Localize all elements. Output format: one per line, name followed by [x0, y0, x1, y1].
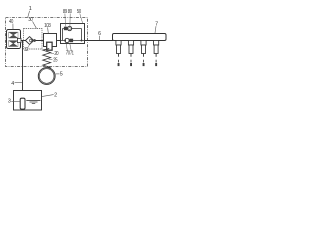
leader line for label 80 [69, 14, 71, 27]
relief valve ball 80 [67, 26, 71, 30]
leader line for label 6 [99, 36, 101, 40]
high pressure line 6 (to rail) [85, 40, 114, 42]
svg-text:2: 2 [54, 92, 57, 98]
low pressure line (pump 40 to pump housing) [21, 40, 44, 42]
junction dot at right riser [81, 40, 83, 42]
left riser wire [62, 29, 64, 41]
right riser wire [81, 29, 83, 41]
leader line for label 103 [47, 27, 50, 33]
leader line for label 1 [28, 11, 30, 18]
dashed box 30 (inlet valve unit) [24, 29, 43, 50]
svg-text:25: 25 [53, 57, 57, 63]
pump housing 103 (pressurizing chamber) [44, 34, 57, 47]
leader line for label 40 [12, 24, 14, 30]
suction pipe 4 (down to tank) [22, 41, 24, 99]
plunger spring 20 [43, 49, 51, 68]
pump 40 outlet port [17, 38, 21, 42]
svg-text:30: 30 [28, 17, 32, 23]
injector 1 [116, 41, 121, 67]
leader line for label 4 [15, 82, 22, 84]
leader line for label 89 [64, 14, 67, 27]
leader line for label 70 [66, 44, 67, 51]
relief valve spring block 89 (top branch) [64, 27, 67, 31]
leader line for label 5 [56, 73, 60, 75]
leader line for label 30 [33, 21, 37, 28]
leader line for label 3 [11, 101, 20, 103]
fuel tank 2 [14, 91, 42, 111]
svg-text:4: 4 [11, 81, 14, 87]
leader line for label 20 [51, 52, 54, 54]
svg-text:71: 71 [70, 51, 74, 57]
pump outlet line [57, 40, 62, 42]
leader line for label 25 [49, 59, 53, 61]
leader line for label 2 [42, 95, 54, 97]
check valve 32 (diamond) [25, 37, 33, 45]
feed pump 40 (motor-pump unit) [7, 30, 21, 49]
leader line for label 50 [80, 14, 83, 24]
check valve 32 seat (dark) [30, 39, 34, 43]
svg-text:50: 50 [77, 9, 81, 15]
svg-text:3: 3 [8, 99, 11, 105]
leader line for label 71 [70, 44, 71, 51]
plunger [47, 42, 52, 50]
pump 40 lower rotor [8, 40, 18, 46]
bottom branch line [61, 40, 85, 42]
svg-text:20: 20 [54, 51, 58, 57]
injector 2 [128, 41, 133, 67]
injector 3 [141, 41, 146, 67]
valve box 50 [61, 24, 85, 44]
top branch line [63, 28, 82, 30]
svg-text:7: 7 [155, 22, 158, 28]
leader line for label 7 [155, 26, 156, 33]
cam 5 [38, 68, 55, 85]
check valve 70 ball (bottom branch) [65, 38, 69, 42]
pump 40 upper rotor [8, 32, 18, 38]
enclosure 1 (dash-dot pump assembly boundary) [6, 18, 88, 67]
junction dot at valve box inlet [60, 39, 62, 41]
filter 3 (suction filter) [20, 98, 25, 109]
injector 4 [154, 41, 159, 67]
leader line for label 32 [28, 45, 30, 47]
svg-text:5: 5 [60, 72, 63, 78]
fuel rail 7 (delivery pipe) [113, 34, 167, 41]
check valve 71 spring block [70, 39, 74, 43]
svg-text:32: 32 [24, 47, 28, 53]
fuel level mark [26, 100, 40, 102]
